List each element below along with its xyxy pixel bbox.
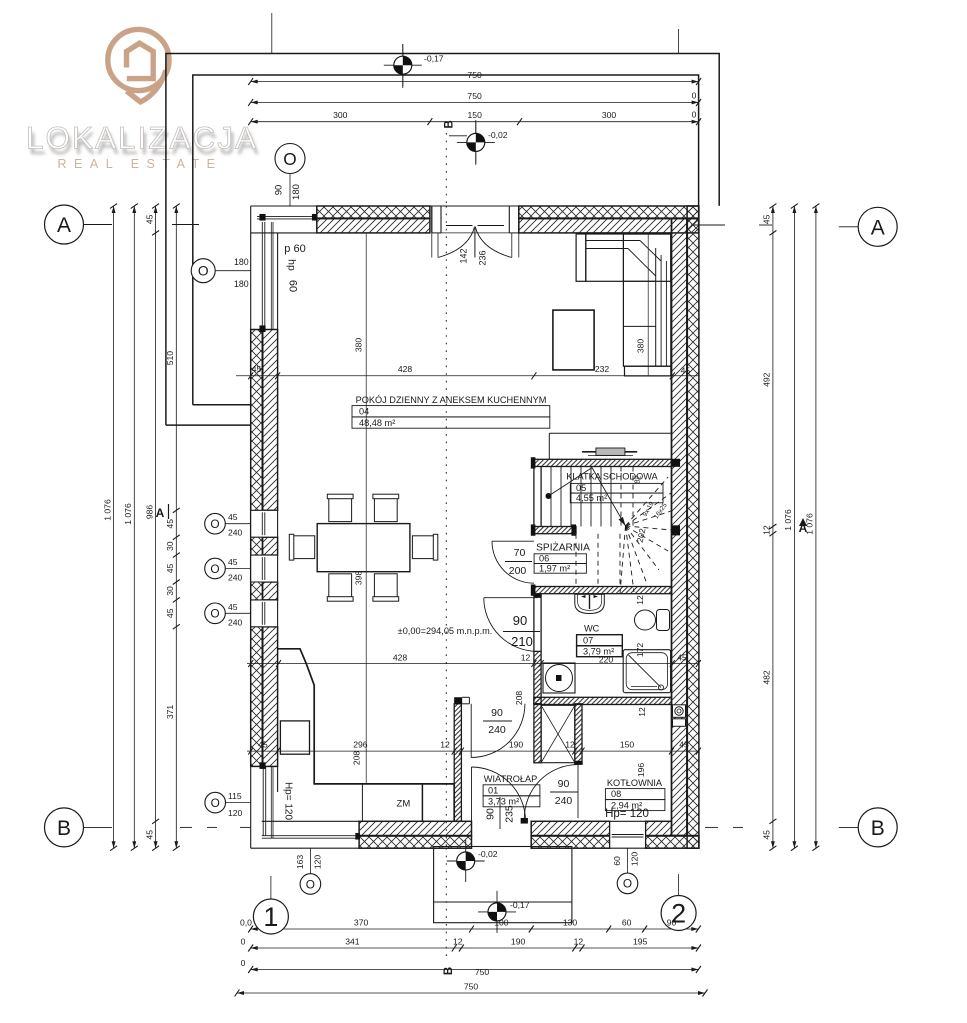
roof eaves outline (inner) bbox=[193, 75, 699, 405]
kotlownia door 90/240 bbox=[524, 765, 578, 819]
kotlownia window 60 bbox=[610, 821, 646, 848]
stair treads straight flight bbox=[551, 467, 611, 527]
svg-text:45: 45 bbox=[258, 740, 268, 750]
svg-text:3,73 m²: 3,73 m² bbox=[488, 797, 519, 807]
window marker O 90/180 top bbox=[275, 144, 305, 174]
svg-text:172: 172 bbox=[635, 643, 645, 658]
svg-text:12: 12 bbox=[635, 595, 645, 605]
svg-text:180: 180 bbox=[234, 279, 249, 289]
wall band boundary thick lines bbox=[317, 217, 430, 219]
svg-text:12: 12 bbox=[762, 525, 772, 535]
svg-text:60: 60 bbox=[622, 918, 632, 928]
dimension chain x=155.6 bbox=[155, 206, 157, 848]
axis circle 2 bbox=[661, 896, 696, 931]
svg-text:12: 12 bbox=[521, 652, 531, 662]
benchmark -0,02 bottom bbox=[447, 840, 485, 882]
dimension chain y=948 bbox=[251, 947, 699, 949]
svg-text:B: B bbox=[871, 817, 885, 840]
svg-text:07: 07 bbox=[583, 635, 593, 645]
shaft walls wiatrolap bbox=[534, 704, 541, 763]
svg-text:220: 220 bbox=[599, 655, 614, 665]
chair top 2 bbox=[374, 497, 397, 521]
svg-text:60: 60 bbox=[612, 856, 622, 866]
dimension chain y=102.4 bbox=[251, 101, 699, 103]
svg-text:-0,17: -0,17 bbox=[424, 54, 444, 64]
svg-text:45: 45 bbox=[165, 564, 175, 574]
partition: vertical wall living/stair x=534 bbox=[533, 467, 535, 527]
svg-text:750: 750 bbox=[464, 982, 479, 992]
svg-text:380: 380 bbox=[354, 338, 364, 353]
svg-text:120: 120 bbox=[228, 808, 243, 818]
svg-text:12: 12 bbox=[574, 937, 584, 947]
wall segment below wc door bbox=[534, 651, 541, 703]
svg-text:O: O bbox=[211, 796, 220, 810]
svg-text:04: 04 bbox=[359, 407, 369, 417]
svg-text:240: 240 bbox=[488, 724, 506, 736]
svg-text:REAL ESTATE: REAL ESTATE bbox=[58, 157, 223, 171]
svg-text:60: 60 bbox=[287, 280, 299, 292]
vertical helper dim lines bbox=[365, 233, 367, 784]
bottom wall segment C (right corner) bbox=[646, 821, 672, 836]
svg-text:B: B bbox=[57, 817, 71, 840]
svg-text:KOTŁOWNIA: KOTŁOWNIA bbox=[607, 778, 663, 788]
svg-text:12: 12 bbox=[637, 707, 647, 717]
window 45/240 at y=555 bbox=[251, 555, 278, 582]
kitchen sink/hob rect bbox=[280, 721, 309, 754]
svg-text:O: O bbox=[623, 877, 632, 891]
svg-text:750: 750 bbox=[467, 70, 482, 80]
svg-text:208: 208 bbox=[514, 691, 524, 706]
dimension chain y=969.5 bbox=[251, 969, 699, 971]
dimension chain x=134.3 bbox=[133, 206, 135, 848]
pantry door 70/200 bbox=[492, 541, 534, 583]
roof eaves outline (outer) bbox=[166, 54, 719, 426]
window marker O 115/120 bbox=[205, 792, 226, 813]
partition: vertical wall living/wc lower bbox=[534, 594, 541, 598]
svg-text:O: O bbox=[306, 877, 315, 891]
corner window vertical leg 180 bbox=[250, 233, 252, 330]
svg-text:-0,17: -0,17 bbox=[510, 900, 530, 910]
interior dim line y=751.1 bbox=[247, 750, 698, 752]
dimension chain y=993 bbox=[237, 992, 705, 994]
svg-text:208: 208 bbox=[352, 751, 362, 766]
svg-text:01: 01 bbox=[488, 785, 498, 795]
left wall pier between windows 1-2 bbox=[263, 537, 278, 555]
svg-text:45: 45 bbox=[165, 608, 175, 618]
svg-text:A: A bbox=[156, 506, 165, 520]
svg-text:Hp= 120: Hp= 120 bbox=[283, 782, 294, 821]
main entrance double door (top) bbox=[431, 206, 433, 233]
logo Lokalizacja Real Estate bbox=[26, 29, 261, 171]
dimension chain x=113.6 bbox=[113, 206, 115, 848]
svg-text:120: 120 bbox=[313, 855, 323, 870]
svg-text:150: 150 bbox=[468, 110, 483, 120]
shower bbox=[623, 650, 670, 693]
svg-text:08: 08 bbox=[611, 789, 621, 799]
toilet bbox=[635, 610, 656, 630]
svg-text:142: 142 bbox=[459, 248, 469, 263]
top wall left segment bbox=[317, 206, 430, 218]
svg-text:300: 300 bbox=[333, 110, 348, 120]
radiator by stairs bbox=[582, 451, 637, 453]
svg-text:300: 300 bbox=[602, 110, 617, 120]
stair winder dashed treads bbox=[576, 467, 671, 595]
svg-text:380: 380 bbox=[636, 339, 646, 354]
svg-text:492: 492 bbox=[762, 372, 772, 387]
benchmark -0,02 top bbox=[457, 121, 495, 163]
svg-text:0: 0 bbox=[692, 90, 697, 100]
svg-text:371: 371 bbox=[165, 705, 175, 720]
window 45/240 at y=510 bbox=[251, 510, 278, 537]
dimension chain x=176.3 bbox=[175, 206, 177, 848]
svg-text:90: 90 bbox=[491, 707, 503, 719]
svg-text:986: 986 bbox=[144, 505, 154, 520]
axis circle 1 bbox=[253, 899, 288, 934]
svg-text:210: 210 bbox=[511, 634, 533, 649]
svg-text:O: O bbox=[210, 517, 219, 531]
svg-text:750: 750 bbox=[467, 91, 482, 101]
window marker O 163/120 bottom bbox=[300, 874, 321, 895]
bottom wall segment B (entrance..window) bbox=[531, 821, 610, 836]
svg-text:180: 180 bbox=[234, 257, 249, 267]
svg-text:296: 296 bbox=[353, 740, 368, 750]
svg-text:45: 45 bbox=[679, 740, 689, 750]
svg-text:06: 06 bbox=[539, 553, 549, 563]
svg-text:ZM: ZM bbox=[397, 799, 411, 810]
svg-text:180: 180 bbox=[291, 184, 302, 200]
svg-text:240: 240 bbox=[228, 528, 243, 538]
window marker O 45/240 #2 bbox=[205, 558, 226, 579]
shaft with X (vent duct) bbox=[541, 705, 575, 762]
svg-text:45: 45 bbox=[228, 602, 238, 612]
section line B-B dotted bbox=[445, 133, 447, 206]
corner sofa bbox=[576, 234, 671, 376]
washing machine bbox=[543, 663, 575, 693]
svg-text:A: A bbox=[57, 214, 71, 237]
floor opening above stairs bbox=[549, 432, 671, 434]
svg-text:O: O bbox=[283, 149, 296, 169]
svg-text:12: 12 bbox=[440, 740, 450, 750]
chair top 1 bbox=[329, 497, 352, 521]
wall stub right wall at stairs bbox=[672, 525, 681, 535]
left wall segment below window 3 bbox=[263, 627, 278, 767]
svg-text:428: 428 bbox=[398, 364, 413, 374]
svg-text:90: 90 bbox=[485, 808, 497, 820]
entrance threshold bbox=[521, 818, 528, 824]
svg-text:45: 45 bbox=[228, 512, 238, 522]
dimension chain y=929 bbox=[251, 928, 699, 930]
svg-text:232: 232 bbox=[595, 364, 610, 374]
svg-text:30: 30 bbox=[165, 541, 175, 551]
dimension chain x=794.4 bbox=[793, 206, 795, 848]
interior dim line y=375.8 bbox=[236, 375, 698, 377]
svg-text:482: 482 bbox=[762, 670, 772, 685]
svg-text:SPIŻARNIA: SPIŻARNIA bbox=[536, 541, 590, 554]
svg-text:O: O bbox=[210, 562, 219, 576]
svg-text:341: 341 bbox=[345, 937, 360, 947]
svg-text:195: 195 bbox=[633, 937, 648, 947]
svg-text:240: 240 bbox=[228, 573, 243, 583]
svg-text:120: 120 bbox=[630, 852, 640, 867]
svg-text:O: O bbox=[210, 607, 219, 621]
window marker O 45/240 #3 bbox=[205, 603, 226, 624]
bottom wall segment A (left of entrance) bbox=[359, 821, 471, 836]
svg-text:370: 370 bbox=[354, 918, 369, 928]
partition: wc north wall bbox=[534, 587, 672, 594]
entrance porch outline bbox=[434, 847, 572, 923]
corner window glazing horizontal 90 bbox=[257, 216, 313, 218]
benchmark -0,17 bottom bbox=[478, 891, 516, 933]
axis A circle left bbox=[45, 205, 84, 244]
svg-text:90: 90 bbox=[513, 613, 527, 628]
svg-text:90: 90 bbox=[274, 185, 285, 196]
svg-text:45: 45 bbox=[144, 214, 154, 224]
svg-text:48,48 m²: 48,48 m² bbox=[359, 418, 395, 428]
axis A circle right bbox=[858, 207, 897, 246]
svg-text:190: 190 bbox=[509, 740, 524, 750]
dining table bbox=[317, 524, 410, 572]
svg-text:236: 236 bbox=[478, 250, 488, 265]
dimension chain x=815.9 bbox=[815, 206, 817, 848]
chair bottom 2 bbox=[374, 574, 397, 598]
svg-text:510: 510 bbox=[165, 351, 175, 366]
partition: wc south wall bbox=[534, 697, 672, 704]
interior dim line y=663.6 bbox=[247, 663, 698, 665]
svg-text:12: 12 bbox=[565, 740, 575, 750]
svg-text:hp: hp bbox=[286, 259, 298, 271]
kitchen counter left leg bbox=[278, 649, 455, 822]
svg-text:05: 05 bbox=[576, 483, 586, 493]
svg-text:30: 30 bbox=[165, 586, 175, 596]
svg-text:0: 0 bbox=[241, 958, 246, 968]
svg-text:90: 90 bbox=[667, 918, 677, 928]
svg-text:4,55 m²: 4,55 m² bbox=[576, 493, 607, 503]
svg-text:398: 398 bbox=[354, 571, 364, 586]
svg-text:WC: WC bbox=[584, 624, 600, 634]
svg-text:90: 90 bbox=[558, 778, 570, 790]
wc sink bbox=[575, 594, 605, 613]
svg-text:B: B bbox=[443, 967, 455, 975]
svg-text:45: 45 bbox=[677, 652, 687, 662]
svg-text:163: 163 bbox=[295, 855, 305, 870]
corner window top-left: frame bbox=[251, 205, 317, 207]
svg-text:±0,00=294,05 m.n.p.m.: ±0,00=294,05 m.n.p.m. bbox=[398, 626, 493, 636]
svg-text:45: 45 bbox=[165, 519, 175, 529]
chair right bbox=[412, 536, 434, 559]
svg-text:45: 45 bbox=[144, 830, 154, 840]
svg-text:0: 0 bbox=[241, 937, 246, 947]
svg-text:70: 70 bbox=[514, 547, 526, 559]
chair left bbox=[292, 536, 314, 559]
top wall right segment bbox=[519, 206, 699, 218]
entrance door 90/235 bbox=[471, 767, 473, 821]
logo pin icon bbox=[108, 29, 169, 102]
left wall segment (upper, below corner window) bbox=[251, 330, 263, 767]
window marker O 45/240 #1 bbox=[205, 513, 226, 534]
kitchen-wiatrolap door 90/240 bbox=[470, 704, 472, 758]
svg-text:1,97 m²: 1,97 m² bbox=[539, 563, 570, 573]
svg-text:45: 45 bbox=[228, 557, 238, 567]
svg-text:235: 235 bbox=[504, 805, 516, 823]
svg-text:0: 0 bbox=[692, 110, 697, 120]
svg-text:240: 240 bbox=[228, 617, 243, 627]
svg-text:KLATKA SCHODOWA: KLATKA SCHODOWA bbox=[566, 472, 658, 482]
svg-text:750: 750 bbox=[475, 967, 490, 977]
vent squares in right wall bbox=[673, 705, 686, 718]
coffee table bbox=[553, 310, 594, 370]
svg-text:1 076: 1 076 bbox=[123, 503, 133, 525]
svg-text:45: 45 bbox=[762, 214, 772, 224]
svg-text:190: 190 bbox=[511, 937, 526, 947]
bottom window 163 glazing bbox=[251, 847, 359, 849]
benchmark -0,17 top bbox=[384, 44, 422, 86]
partition: kotlownia west wall upper bbox=[575, 704, 582, 764]
svg-text:45: 45 bbox=[681, 366, 691, 376]
svg-text:428: 428 bbox=[393, 652, 408, 662]
partition: wiatrolap west wall bbox=[454, 704, 461, 822]
svg-text:WIATROŁAP: WIATROŁAP bbox=[484, 774, 537, 784]
top wall thin face line across door opening bbox=[430, 205, 520, 207]
svg-text:12: 12 bbox=[453, 937, 463, 947]
svg-text:240: 240 bbox=[555, 795, 573, 807]
left wall pier between windows 2-3 bbox=[263, 582, 278, 600]
partition: pantry north wall bbox=[534, 527, 576, 534]
stair walk line bbox=[546, 493, 552, 499]
corner window bottom-left vertical leg bbox=[250, 766, 252, 848]
window 45/240 at y=600 bbox=[251, 600, 278, 627]
svg-text:1 076: 1 076 bbox=[102, 499, 112, 521]
dimension chain y=121.7 bbox=[251, 121, 699, 123]
window marker O 60/120 bottom bbox=[617, 873, 638, 894]
svg-text:200: 200 bbox=[509, 565, 527, 577]
svg-text:45: 45 bbox=[762, 830, 772, 840]
svg-text:45: 45 bbox=[252, 364, 262, 374]
svg-text:O: O bbox=[198, 264, 209, 279]
axis B circle left bbox=[45, 808, 84, 847]
window marker O 180/180 bbox=[191, 259, 215, 283]
svg-text:115: 115 bbox=[228, 791, 242, 801]
svg-text:LOKALIZACJA: LOKALIZACJA bbox=[26, 120, 258, 156]
svg-text:A: A bbox=[871, 216, 885, 239]
axis B circle right bbox=[858, 808, 897, 847]
svg-text:1 076: 1 076 bbox=[783, 509, 793, 531]
dimension chain y=81.6 bbox=[251, 81, 699, 83]
svg-text:POKÓJ DZIENNY Z ANEKSEM KUCHEN: POKÓJ DZIENNY Z ANEKSEM KUCHENNYM bbox=[356, 395, 547, 405]
svg-text:Hp= 120: Hp= 120 bbox=[605, 808, 649, 820]
svg-text:1: 1 bbox=[263, 902, 278, 932]
svg-text:0,0: 0,0 bbox=[240, 918, 252, 928]
partition: stairwell north wall bbox=[534, 459, 672, 466]
right wall bbox=[687, 206, 699, 848]
svg-text:p 60: p 60 bbox=[284, 243, 305, 255]
svg-text:B: B bbox=[444, 120, 456, 128]
svg-text:-0,02: -0,02 bbox=[488, 130, 508, 140]
svg-text:-0,02: -0,02 bbox=[478, 849, 498, 859]
svg-text:196: 196 bbox=[636, 763, 646, 778]
svg-text:150: 150 bbox=[620, 740, 635, 750]
chair bottom 1 bbox=[329, 574, 352, 598]
dimension chain x=772.9 bbox=[772, 206, 774, 848]
wc door 90/210 bbox=[484, 598, 538, 652]
counter divider ZM bbox=[361, 784, 363, 821]
